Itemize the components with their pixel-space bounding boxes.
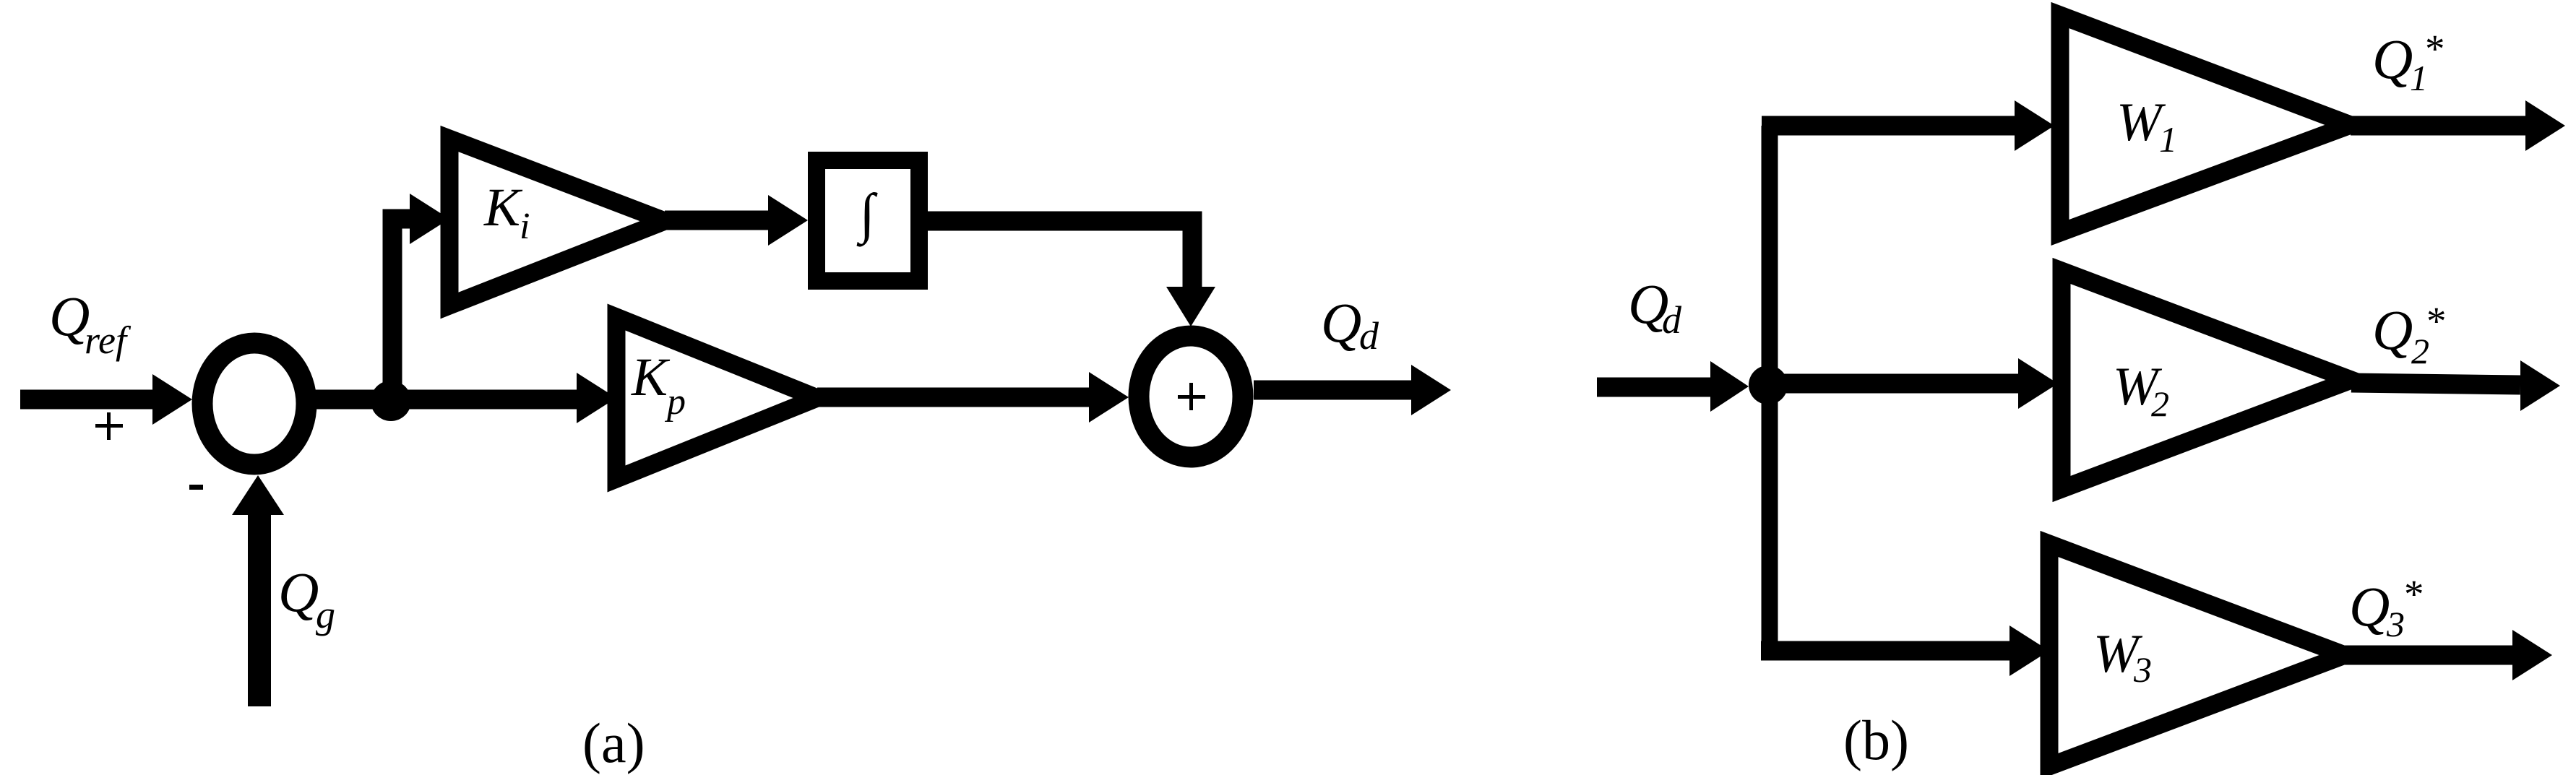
svg-text:g: g — [316, 593, 335, 636]
wire Qref input — [20, 390, 156, 410]
node Qg label — [278, 560, 335, 636]
svg-text:*: * — [2425, 27, 2445, 71]
arrowhead W3 output — [2512, 630, 2552, 680]
arrowhead into integrator — [768, 195, 808, 246]
svg-text:(b): (b) — [1843, 709, 1909, 771]
arrowhead into W3 — [2009, 625, 2049, 676]
summing junction S2 — [1139, 336, 1243, 457]
wire riser to Ki — [392, 219, 413, 408]
svg-text:i: i — [520, 206, 530, 247]
svg-text:Q: Q — [2372, 27, 2413, 90]
svg-text:p: p — [664, 381, 686, 423]
integrator block — [817, 160, 919, 281]
arrowhead down into summer S2 — [1166, 287, 1215, 326]
svg-text:*: * — [2426, 299, 2447, 343]
arrowhead Qd output — [1411, 365, 1451, 415]
svg-text:K: K — [483, 178, 523, 238]
svg-text:ref: ref — [85, 319, 132, 362]
svg-text:3: 3 — [2386, 604, 2405, 644]
node Qd label (b) — [1628, 272, 1682, 342]
arrowhead into W2 — [2018, 358, 2058, 409]
arrowhead into Kp — [577, 373, 616, 423]
wire Qg input — [248, 506, 271, 706]
gain block Kp — [616, 317, 817, 479]
svg-text:Q: Q — [1321, 291, 1361, 354]
node Q1* label — [2372, 27, 2445, 98]
arrowhead into summer S1 — [152, 374, 192, 425]
summing junction S1 — [202, 343, 306, 464]
label W3 — [2093, 624, 2152, 690]
arrowhead W2 output — [2520, 360, 2560, 411]
node Q3* label — [2349, 572, 2424, 644]
wire Ki to integrator — [665, 211, 770, 230]
arrowhead W1 output — [2525, 100, 2565, 151]
svg-text:d: d — [1662, 298, 1682, 342]
svg-text:Q: Q — [278, 560, 319, 623]
wire Qd input (b) — [1597, 378, 1714, 397]
plus sign at summer S1 input — [95, 412, 123, 440]
gain block W3 — [2049, 544, 2345, 766]
gain block W1 — [2060, 15, 2351, 233]
wire branch 2 — [1762, 374, 2023, 394]
junction dot — [371, 381, 411, 421]
arrowhead up into summer S1 — [232, 475, 284, 515]
svg-text:Q: Q — [2349, 575, 2390, 638]
node Qref label — [49, 285, 132, 362]
wire branch 3 — [1761, 641, 2017, 661]
wire W2 output — [2351, 383, 2520, 385]
svg-text:d: d — [1359, 314, 1379, 358]
svg-text:2: 2 — [2151, 384, 2169, 424]
wire W1 output — [2351, 116, 2527, 136]
wire error signal from S1 — [311, 390, 578, 410]
svg-text:(a): (a) — [582, 711, 645, 774]
wire Kp to summer S2 — [817, 388, 1090, 407]
label Kp — [631, 347, 686, 423]
svg-text:1: 1 — [2159, 119, 2177, 160]
svg-text:Q: Q — [2372, 298, 2413, 361]
junction dot (b) — [1749, 365, 1788, 404]
gain block Ki — [449, 139, 665, 306]
svg-text:Q: Q — [49, 285, 90, 347]
minus sign at summer S1 input — [189, 485, 203, 490]
arrowhead into summer S2 — [1089, 372, 1129, 423]
arrowhead into junction (b) — [1710, 361, 1749, 412]
gain block W2 — [2062, 271, 2351, 489]
node Qd label (a) — [1321, 291, 1379, 358]
arrowhead into Ki — [410, 194, 449, 244]
label Ki — [483, 178, 530, 247]
arrowhead into W1 — [2015, 100, 2054, 151]
wire Qd output — [1254, 381, 1413, 400]
node Q2* label — [2372, 298, 2447, 371]
svg-text:K: K — [631, 347, 671, 407]
plus sign inside summer S2 — [1178, 383, 1205, 410]
wire branch 1 — [1762, 116, 2020, 136]
label W2 — [2113, 357, 2169, 424]
wire integrator to summer S2 — [928, 221, 1192, 287]
svg-text:3: 3 — [2133, 649, 2152, 690]
bus riser (b) — [1762, 126, 1778, 659]
wire W3 output — [2345, 646, 2514, 665]
label W1 — [2116, 92, 2177, 160]
svg-text:*: * — [2404, 572, 2424, 616]
svg-text:∫: ∫ — [856, 182, 877, 247]
